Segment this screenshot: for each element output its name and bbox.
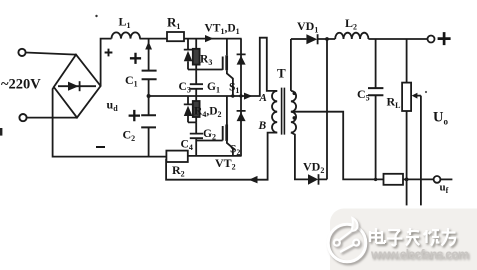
svg-text:B: B (258, 120, 267, 132)
svg-text:www.elecfans.com: www.elecfans.com (370, 248, 469, 262)
svg-text:T: T (277, 66, 286, 81)
svg-text:R4,D2: R4,D2 (194, 106, 222, 120)
svg-text:A: A (259, 92, 267, 104)
svg-text:~220V: ~220V (1, 77, 41, 93)
